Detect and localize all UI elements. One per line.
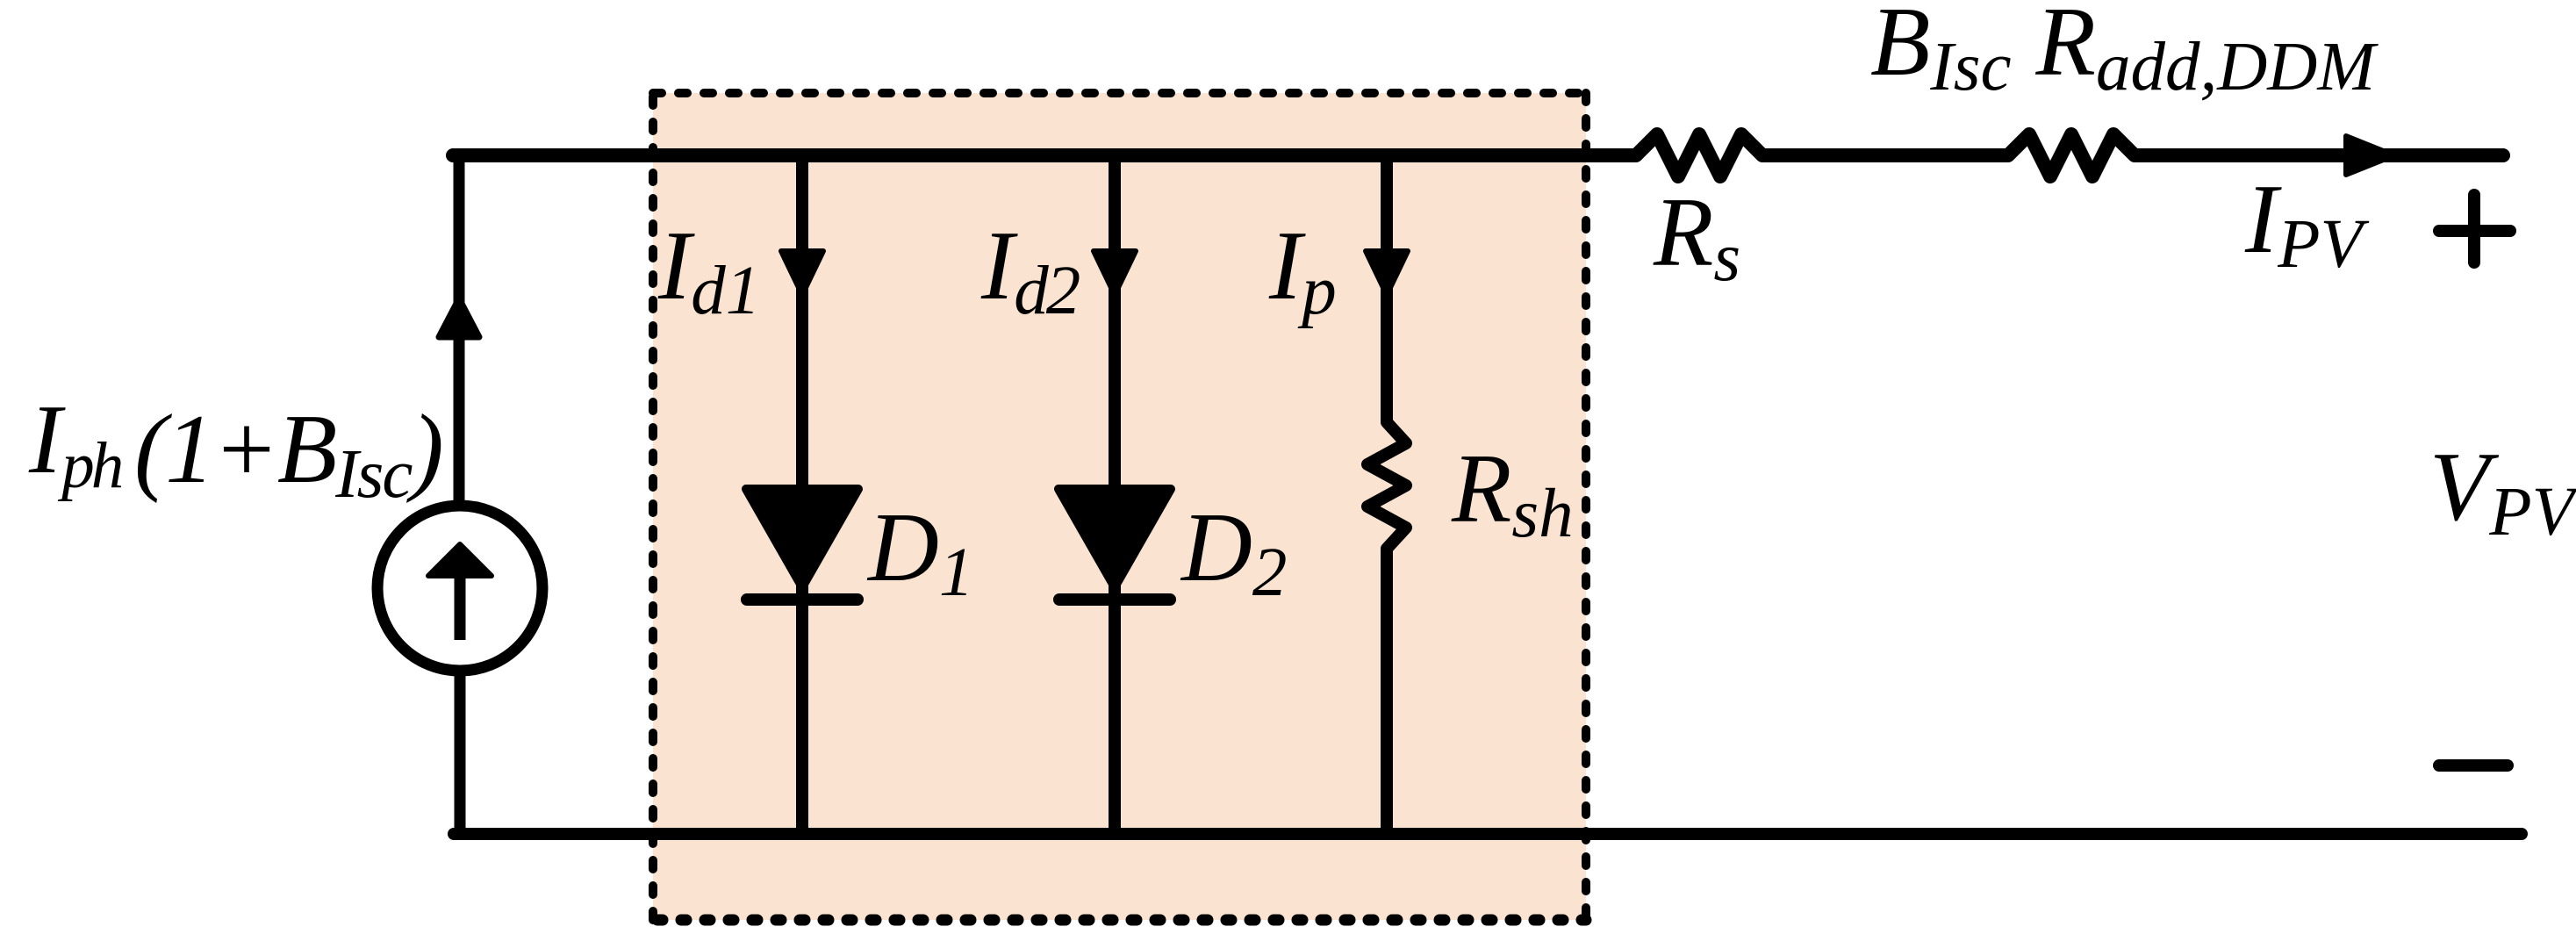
svg-text:BIsc Radd,DDM: BIsc Radd,DDM xyxy=(1870,0,2379,105)
svg-text:Rs: Rs xyxy=(1653,178,1740,296)
svg-text:IPV: IPV xyxy=(2244,165,2370,283)
svg-text:Iph: Iph xyxy=(28,385,122,502)
svg-text:VPV: VPV xyxy=(2429,433,2576,550)
svg-text:(1+BIsc): (1+BIsc) xyxy=(134,395,442,513)
